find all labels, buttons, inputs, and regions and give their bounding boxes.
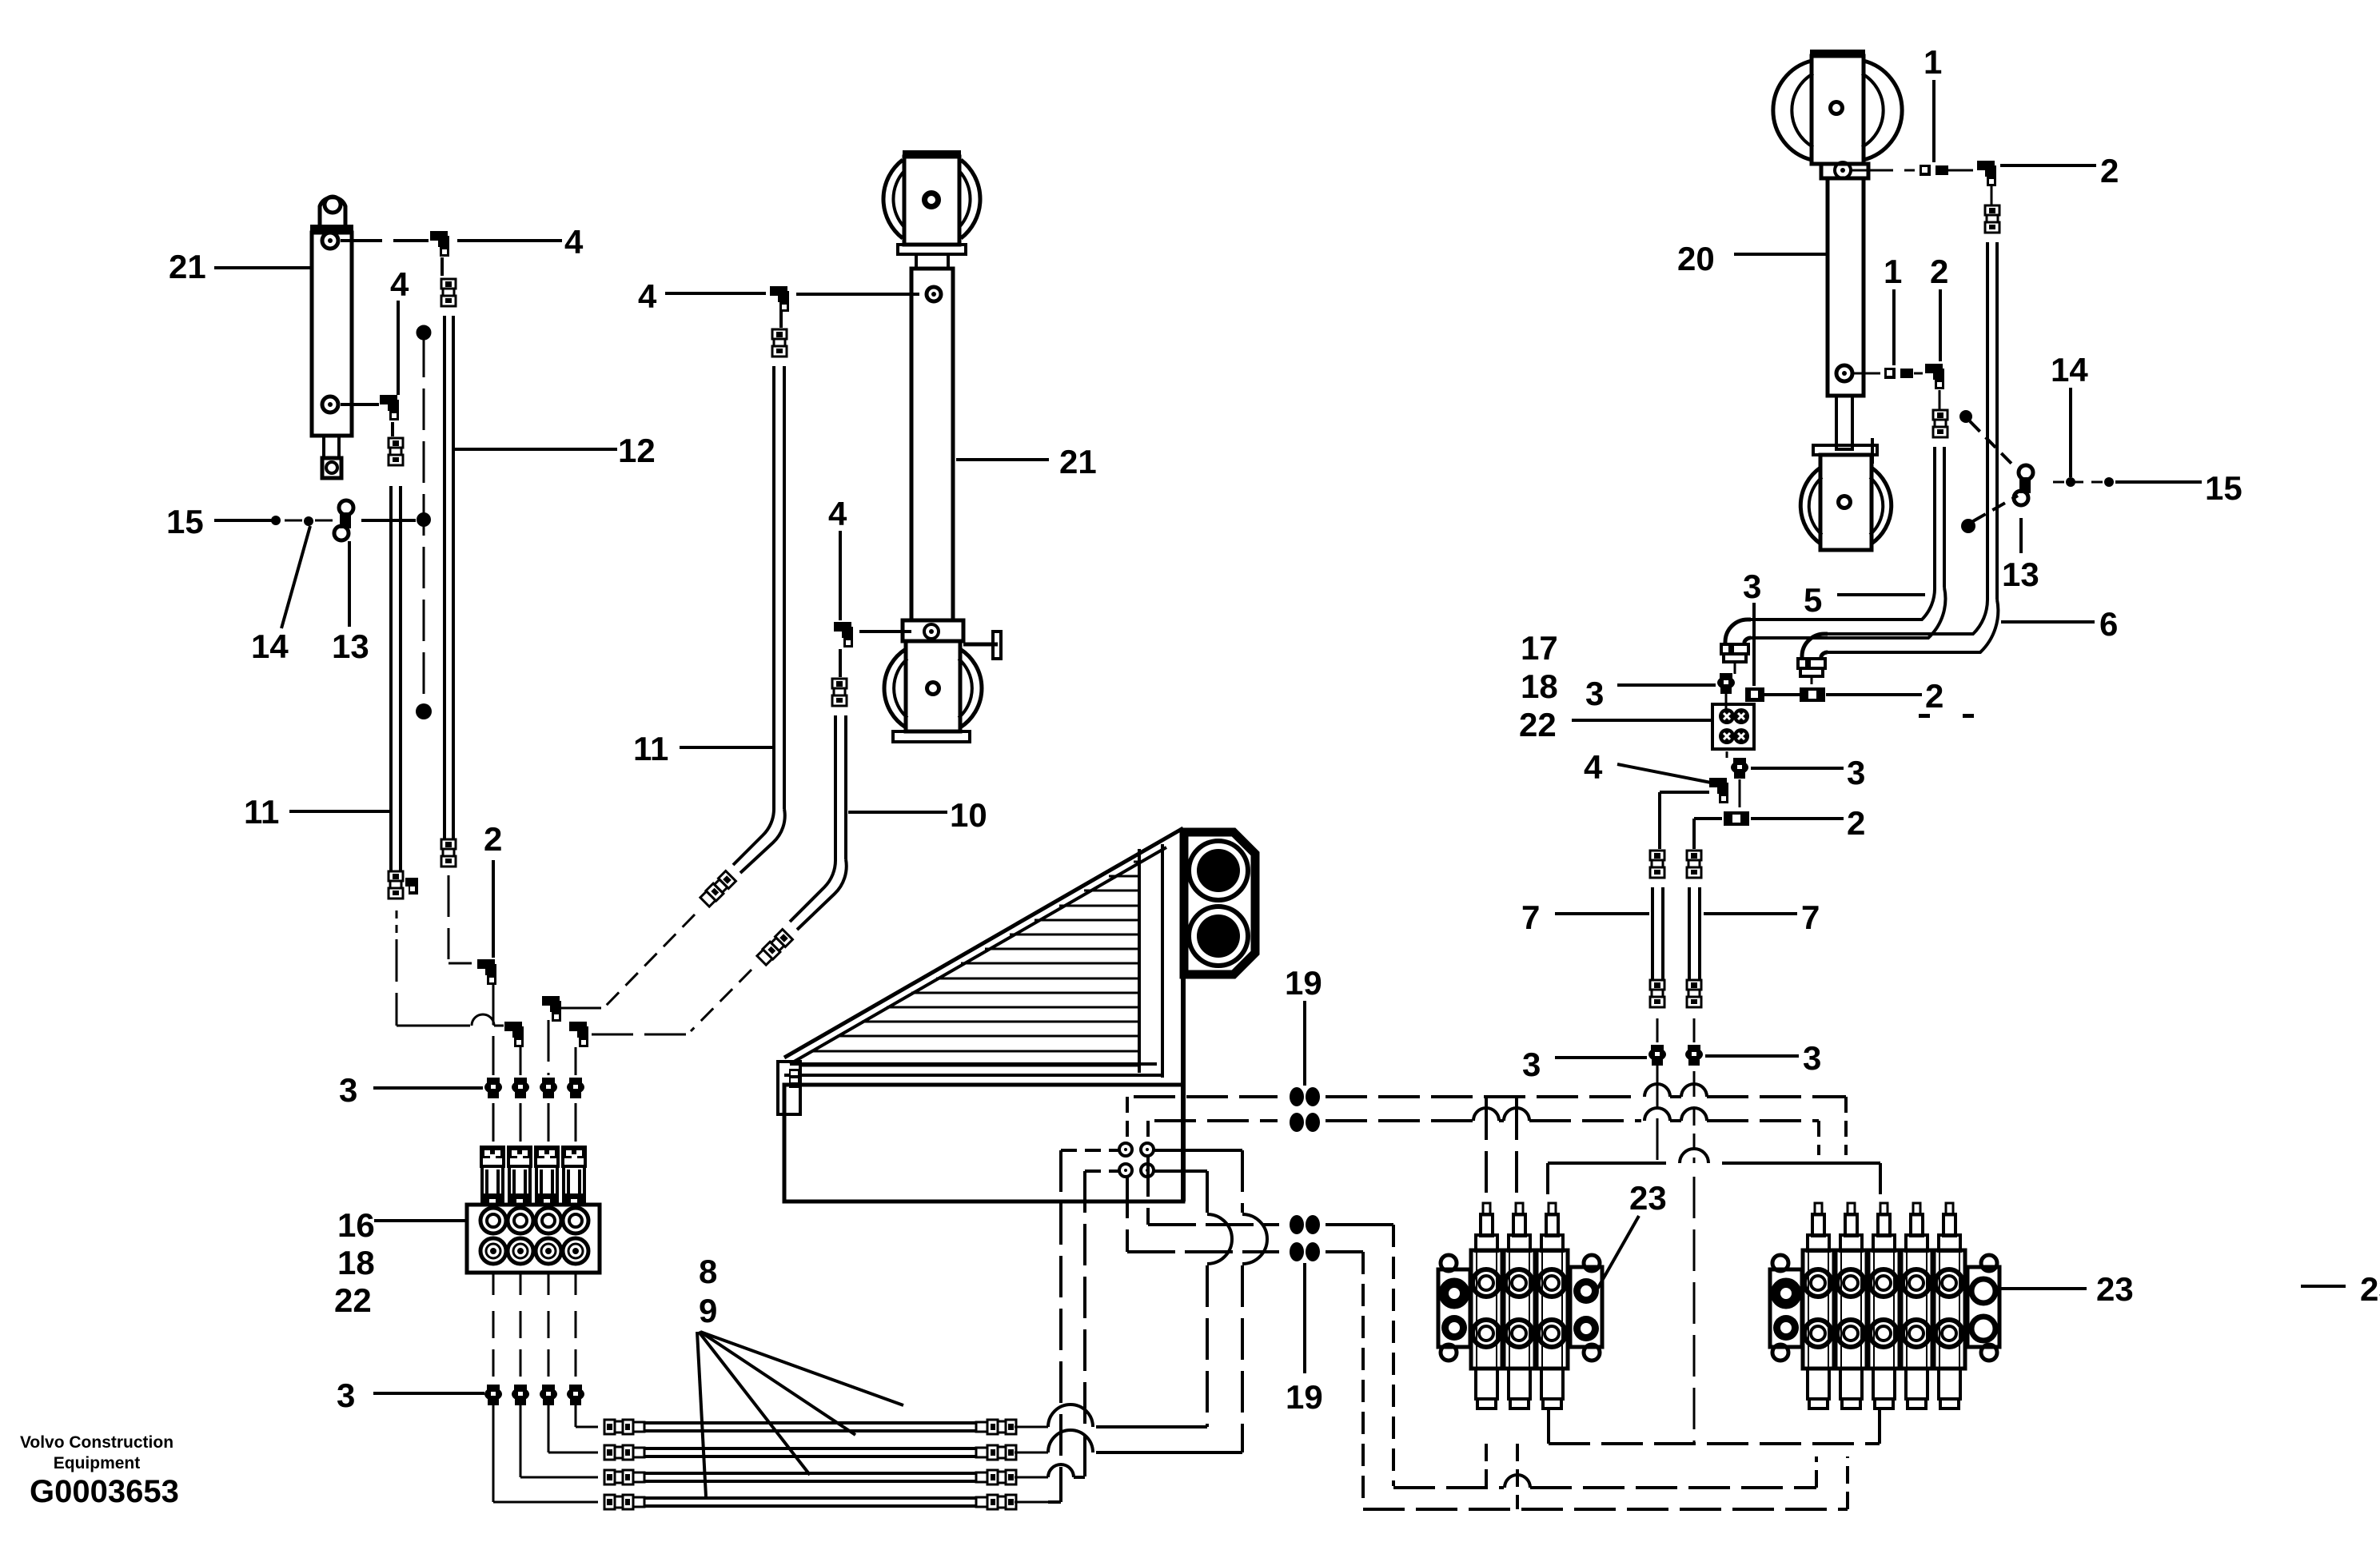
- svg-text:22: 22: [334, 1281, 372, 1319]
- bottom pulley wheel (right cylinder): [1800, 468, 1820, 544]
- alignment dots: [1919, 714, 1930, 718]
- clip 13 (left): [339, 500, 353, 515]
- wire hose 11 middle to elbow: [606, 914, 695, 1006]
- svg-text:2: 2: [484, 820, 502, 858]
- valve right spool cap 4: [1906, 1235, 1928, 1251]
- leader 3 (hose7 left): [1555, 1056, 1647, 1059]
- svg-text:G0003653: G0003653: [30, 1474, 179, 1509]
- work light lower: [1189, 907, 1248, 966]
- clip link pins (right): [1959, 410, 1972, 423]
- svg-text:19: 19: [1286, 1378, 1323, 1416]
- leader 4 (middle bottom): [839, 531, 842, 620]
- wire elbow to hose 5: [1939, 390, 1941, 409]
- svg-text:2: 2: [1847, 804, 1865, 842]
- leader 23 (right bank): [1998, 1287, 2087, 1290]
- leader 22: [1572, 719, 1711, 722]
- leader 2 (top right): [2000, 164, 2096, 167]
- manifold top ports: [480, 1208, 506, 1233]
- cylinder 21 (left) rod eye: [322, 458, 341, 478]
- svg-text:6: 6: [2099, 605, 2118, 643]
- svg-text:13: 13: [2002, 556, 2039, 593]
- return line A between banks: [1549, 1442, 1880, 1445]
- elbow 2 (hose 12 connection): [477, 959, 495, 969]
- junction tee (cluster): [1745, 687, 1764, 702]
- valve right spool cap 2: [1840, 1235, 1862, 1251]
- top pulley base plate: [898, 245, 966, 254]
- hose 7 (right) top fitting: [1687, 851, 1701, 860]
- cylinder 21 (middle) top port: [927, 287, 941, 301]
- leader 16: [374, 1219, 465, 1222]
- hose 10: [834, 715, 837, 859]
- elbow adapter at hose 11 end: [405, 878, 418, 887]
- leader 21 (left): [214, 266, 311, 269]
- hose 7 (left) top fitting: [1650, 851, 1664, 860]
- leader 12: [452, 448, 617, 451]
- svg-text:20: 20: [1677, 240, 1715, 277]
- svg-text:7: 7: [1521, 899, 1540, 936]
- wire elbow to hose 10: [839, 649, 842, 677]
- wire elbow to hose 12: [441, 257, 444, 276]
- svg-text:2: 2: [2100, 152, 2119, 189]
- valve right bottom cap 1: [1808, 1369, 1829, 1399]
- leader 3 (manifold lower): [373, 1392, 484, 1395]
- cylinder 21 (middle) gland: [916, 254, 948, 269]
- side pin (middle cylinder): [963, 643, 998, 647]
- hose 7 (right): [1688, 887, 1691, 980]
- leader 13 (right): [2019, 518, 2023, 553]
- manifold feed dashes (upper): [492, 1103, 495, 1142]
- leader 7 (right): [1704, 912, 1797, 915]
- clip 13 (right): [2019, 465, 2033, 480]
- svg-text:1: 1: [1924, 43, 1942, 81]
- bottom pulley block (right cylinder): [1820, 455, 1872, 550]
- leader 5: [1837, 593, 1925, 596]
- cylinder 20 body: [1828, 178, 1864, 396]
- wire elbow to hose 11 middle: [779, 312, 783, 328]
- svg-text:23: 23: [2360, 1270, 2380, 1308]
- hose 3 return line: [1074, 1476, 1085, 1479]
- frame right edge: [1181, 828, 1186, 1201]
- elbow (col4): [569, 1022, 587, 1031]
- elbow (col3): [542, 996, 560, 1006]
- wire hose5 elbow down: [1734, 663, 1736, 674]
- leader 11 (middle): [680, 746, 772, 749]
- hose 11 left to col2: [396, 910, 398, 940]
- elbow fitting 2 (mid): [1914, 373, 1923, 375]
- hose 5 end elbow: [1725, 620, 1751, 646]
- svg-text:12: 12: [618, 432, 656, 469]
- frame beam band: [790, 1062, 1157, 1066]
- hose 11 (middle) top fitting: [772, 329, 787, 339]
- hose7 left drop to feed line: [1656, 1066, 1659, 1163]
- svg-text:5: 5: [1804, 581, 1822, 619]
- leader 14 (left): [281, 526, 310, 628]
- manifold block 16: [467, 1205, 600, 1273]
- svg-text:3: 3: [1803, 1039, 1821, 1077]
- manifold outlet bends: [492, 1405, 495, 1502]
- leader 10: [848, 811, 947, 814]
- hose 6 end elbow: [1802, 634, 1828, 660]
- valve bank 23 (left) right end cap: [1570, 1267, 1602, 1347]
- valve bank 23 (right) right end cap: [1967, 1267, 1999, 1347]
- valve left spool cap 3: [1541, 1235, 1563, 1251]
- hose 7 (left): [1651, 887, 1654, 980]
- hose 2 return line: [1096, 1451, 1242, 1454]
- hose 6: [1986, 242, 1989, 600]
- fan leaders 9: [697, 1332, 706, 1496]
- svg-text:Equipment: Equipment: [54, 1454, 141, 1472]
- valve feed line H1455: [1548, 1162, 1666, 1165]
- hose 6 top fitting: [1985, 205, 1999, 215]
- hose 12: [443, 316, 446, 839]
- grommet 19 (L1): [1290, 1087, 1304, 1106]
- svg-text:2: 2: [1930, 253, 1948, 290]
- 3-bank return stubs: [1485, 1444, 1488, 1488]
- top pulley wheel (right cylinder): [1773, 61, 1812, 160]
- cylinder 21 (left) body: [312, 233, 352, 436]
- leader 3 (below block): [1751, 767, 1844, 770]
- svg-text:18: 18: [1521, 667, 1558, 705]
- cylinder 21 (middle) bottom collar: [903, 620, 963, 641]
- coupling block 22 (4-port): [1712, 704, 1754, 749]
- svg-text:23: 23: [1629, 1179, 1667, 1217]
- hose 7 (left) bottom fitting: [1650, 980, 1664, 990]
- valve left spool cap 1: [1476, 1235, 1497, 1251]
- cylinder 21 (middle) body: [911, 269, 953, 620]
- svg-text:23: 23: [2096, 1270, 2134, 1308]
- port P2 line to drop: [1154, 1149, 1242, 1152]
- wire hoses 7 to fittings 3: [1656, 1018, 1659, 1042]
- leader 11 (left): [289, 810, 390, 813]
- valve bank 23 (right) sections: [1803, 1250, 1834, 1369]
- svg-text:13: 13: [332, 628, 369, 665]
- leader 7 (left): [1555, 912, 1649, 915]
- valve bank 23 (left) ear bolts: [1441, 1255, 1457, 1271]
- leader 1 (top): [1932, 80, 1935, 162]
- tee fitting 2 (mid cluster): [1800, 687, 1825, 702]
- fittings 3 row (upper): [487, 1078, 500, 1086]
- valve right bottom cap 5: [1939, 1369, 1960, 1399]
- svg-text:14: 14: [2051, 351, 2088, 389]
- leader 1 (mid): [1892, 289, 1896, 365]
- wire elbow to hose 11: [391, 422, 394, 436]
- svg-text:4: 4: [828, 495, 847, 532]
- tank line B to 5-bank: [1393, 1486, 1504, 1489]
- wire elbow4 to hose 7 left: [1660, 791, 1709, 794]
- line L1 continues: [1326, 1095, 1641, 1098]
- leader 2 (left cluster): [492, 860, 495, 958]
- elbow fitting 4 (right cluster): [1709, 778, 1727, 787]
- line G3 continues: [1326, 1223, 1393, 1226]
- bottom pulley top plate (right): [1813, 445, 1877, 455]
- svg-text:4: 4: [564, 223, 584, 261]
- line G4: [1127, 1250, 1279, 1253]
- svg-text:3: 3: [1743, 568, 1761, 605]
- line L2 from frame: [1146, 1121, 1150, 1143]
- frame left bracket: [778, 1062, 800, 1114]
- svg-text:22: 22: [1519, 706, 1557, 743]
- cylinder 20 collar: [1821, 164, 1868, 178]
- hose 11 (left): [389, 486, 393, 871]
- cylinder 21 (left) cap: [310, 225, 353, 233]
- cylinder 20 rod: [1836, 396, 1852, 449]
- collar port (right cylinder): [1835, 162, 1851, 178]
- fittings 3 row (lower): [487, 1385, 500, 1393]
- svg-text:2: 2: [1925, 677, 1943, 715]
- manifold bottom ports: [480, 1238, 506, 1264]
- grommet 19 (L2): [1290, 1113, 1304, 1132]
- frame outlet ports: [1119, 1143, 1132, 1156]
- grommet 19 (G3): [1290, 1215, 1304, 1234]
- tie rod line with pins (left): [423, 336, 425, 708]
- valve bank 23 (left) sections: [1471, 1250, 1502, 1369]
- svg-text:10: 10: [950, 796, 987, 834]
- svg-text:1: 1: [1884, 253, 1902, 290]
- leader 6: [2001, 620, 2095, 624]
- svg-text:18: 18: [337, 1244, 375, 1281]
- valve bank 23 (right) left end cap: [1770, 1269, 1802, 1347]
- manifold drop dashes: [492, 1273, 495, 1295]
- leader 4 (middle top): [665, 292, 766, 295]
- fitting 3 (cluster left): [1720, 673, 1732, 681]
- bottom pulley block (middle cylinder): [906, 641, 960, 731]
- valve left bottom cap 2: [1509, 1369, 1530, 1399]
- top pulley block (middle cylinder): [903, 150, 961, 158]
- valve bank 23 (left) ports: [1473, 1269, 1500, 1297]
- hose 10 top fitting: [832, 679, 847, 688]
- tank line C to 5-bank: [1363, 1508, 1848, 1511]
- leader 3 (hose7 right): [1705, 1054, 1799, 1058]
- svg-text:9: 9: [699, 1292, 717, 1329]
- port P3 side line: [1085, 1169, 1119, 1173]
- port P3 drop to G4: [1126, 1177, 1129, 1252]
- hose 5 top fitting: [1933, 410, 1947, 420]
- frame hatch lines: [1134, 861, 1139, 863]
- valve right bottom cap 3: [1873, 1369, 1895, 1399]
- wire elbow2 to hose 6: [1991, 185, 1993, 205]
- valve left bottom cap 1: [1476, 1369, 1497, 1399]
- leader 4 (right cluster): [1617, 764, 1711, 783]
- hose 11 (middle) end fitting (diagonal): [700, 871, 736, 907]
- frame hypotenuse: [784, 828, 1183, 1058]
- fitting 3 (hose 7 left): [1651, 1045, 1664, 1053]
- svg-text:11: 11: [633, 730, 668, 767]
- svg-text:3: 3: [1522, 1046, 1541, 1083]
- port P1 feed line: [1061, 1149, 1119, 1152]
- straight fitting 1 (top): [1852, 169, 1915, 172]
- valve right spool cap 3: [1873, 1235, 1895, 1251]
- valve right bottom cap 4: [1906, 1369, 1928, 1399]
- valve left bottom cap 3: [1541, 1369, 1563, 1399]
- wire hose6 elbow to tee: [1811, 678, 1813, 684]
- svg-text:3: 3: [1847, 754, 1865, 791]
- svg-text:21: 21: [169, 248, 206, 285]
- clipped margin leader 23: [2301, 1285, 2346, 1288]
- svg-text:Volvo Construction: Volvo Construction: [20, 1433, 173, 1452]
- leader 4 (left top): [457, 239, 562, 242]
- elbow fitting 4 (left cylinder bottom): [341, 403, 379, 406]
- valve bank 23 (left) left end cap: [1438, 1269, 1470, 1347]
- work light upper: [1189, 841, 1248, 900]
- line L1 from frame: [1126, 1097, 1129, 1143]
- wire block to fitting 3 below: [1726, 751, 1728, 758]
- port P4 line to drop: [1154, 1169, 1207, 1173]
- fitting 3 (below block): [1733, 758, 1746, 766]
- leader 3 (top cluster): [1752, 603, 1756, 686]
- hose 1 return line: [1096, 1425, 1207, 1428]
- leader 23 (left bank): [1596, 1216, 1639, 1292]
- port P2 drop to G3: [1146, 1155, 1150, 1225]
- top pulley block (right cylinder): [1810, 50, 1865, 58]
- bottom pulley wheel (middle cylinder): [884, 649, 906, 727]
- elbow fitting 4 (left cylinder top): [341, 239, 429, 242]
- cylinder 21 (left) top port: [322, 233, 338, 249]
- svg-text:17: 17: [1521, 629, 1558, 667]
- leader 15 (left): [214, 519, 272, 522]
- svg-text:4: 4: [1584, 748, 1603, 786]
- center drop line: [1693, 1071, 1696, 1097]
- fitting 2 (lower cluster): [1739, 779, 1741, 807]
- hose 4 return line: [1015, 1501, 1048, 1504]
- cylinder 21 (left) clevis: [320, 197, 345, 228]
- hose 10 end fitting (diagonal): [756, 930, 792, 966]
- hose 12 top fitting: [441, 279, 456, 289]
- hose 11 (left) top fitting: [389, 438, 403, 448]
- wire hose 10 to elbow: [691, 970, 751, 1031]
- svg-text:21: 21: [1059, 443, 1097, 480]
- hose 12 bottom fitting: [441, 839, 456, 849]
- valve bank 23 (right) ear bolts: [1772, 1255, 1788, 1271]
- valve supply stubs (3-bank): [1485, 1098, 1488, 1203]
- leader 19 (bottom): [1303, 1263, 1306, 1373]
- valve right bottom cap 2: [1840, 1369, 1862, 1399]
- leader 3 (cluster left): [1617, 683, 1716, 687]
- top pulley wheel (middle cylinder): [883, 160, 903, 238]
- line G3: [1148, 1223, 1279, 1226]
- svg-text:3: 3: [339, 1071, 357, 1109]
- cylinder 21 (left) rod: [324, 436, 339, 458]
- hose 7 (right) bottom fitting: [1687, 980, 1701, 990]
- bottom collar port: [924, 624, 939, 639]
- svg-text:19: 19: [1285, 964, 1322, 1002]
- hose 11 (left) bottom fitting: [389, 871, 403, 881]
- leader 21 (middle): [956, 458, 1049, 461]
- svg-text:7: 7: [1801, 899, 1820, 936]
- line L2 continues: [1326, 1119, 1473, 1122]
- valve bank 23 (right) ports: [1804, 1269, 1832, 1297]
- straight fitting 1 (mid): [1852, 373, 1880, 375]
- line G4 continues: [1326, 1250, 1363, 1253]
- frame hatch right boundary: [1138, 849, 1141, 1073]
- svg-text:15: 15: [2205, 469, 2242, 507]
- hose 11 (middle): [772, 366, 775, 809]
- hose 12 to elbow: [448, 875, 450, 959]
- svg-text:4: 4: [638, 277, 657, 315]
- leader 2 (lower cluster): [1751, 817, 1844, 820]
- valve right spool cap 5: [1939, 1235, 1960, 1251]
- svg-text:4: 4: [390, 265, 409, 303]
- work light housing: [1184, 832, 1255, 974]
- leader 20: [1734, 253, 1826, 256]
- valve left spool cap 2: [1509, 1235, 1530, 1251]
- svg-text:14: 14: [251, 628, 289, 665]
- svg-text:3: 3: [337, 1377, 355, 1414]
- wire fitting3 to block: [1725, 694, 1728, 710]
- hose bundle 8/9: [604, 1420, 615, 1434]
- elbow (col2): [504, 1022, 522, 1031]
- elbow fitting 2 (top): [1948, 169, 1973, 172]
- wire fitting2 to hose 7 right: [1694, 817, 1722, 820]
- cluster col drops: [492, 983, 495, 1075]
- leader 13 (left): [348, 541, 351, 627]
- grommet 19 (G4): [1290, 1242, 1304, 1261]
- frame body: [784, 1085, 1183, 1201]
- bottom pulley flange: [893, 731, 970, 742]
- leader 2 (mid col): [1939, 289, 1942, 361]
- svg-text:8: 8: [699, 1253, 717, 1290]
- hose 5: [1933, 447, 1936, 588]
- couplers on manifold: [481, 1147, 504, 1166]
- elbow fitting 4 (middle bottom): [834, 622, 851, 632]
- svg-text:11: 11: [244, 793, 279, 831]
- cylinder 20 bottom port: [1836, 365, 1852, 381]
- elbow fitting 4 (middle top): [770, 286, 787, 296]
- leader 4 (left mid): [397, 301, 400, 395]
- leader 3 (manifold upper): [373, 1086, 483, 1090]
- fitting 3 (hose 7 right): [1688, 1045, 1700, 1053]
- svg-text:15: 15: [166, 503, 204, 540]
- svg-text:16: 16: [337, 1206, 375, 1244]
- valve right spool cap 1: [1808, 1235, 1829, 1251]
- leader 19 (top): [1303, 1001, 1306, 1086]
- pin link line: [361, 519, 416, 522]
- leader 2 (mid): [1826, 693, 1922, 696]
- cylinder 21 (left) bottom port: [322, 396, 338, 412]
- svg-text:3: 3: [1585, 675, 1604, 712]
